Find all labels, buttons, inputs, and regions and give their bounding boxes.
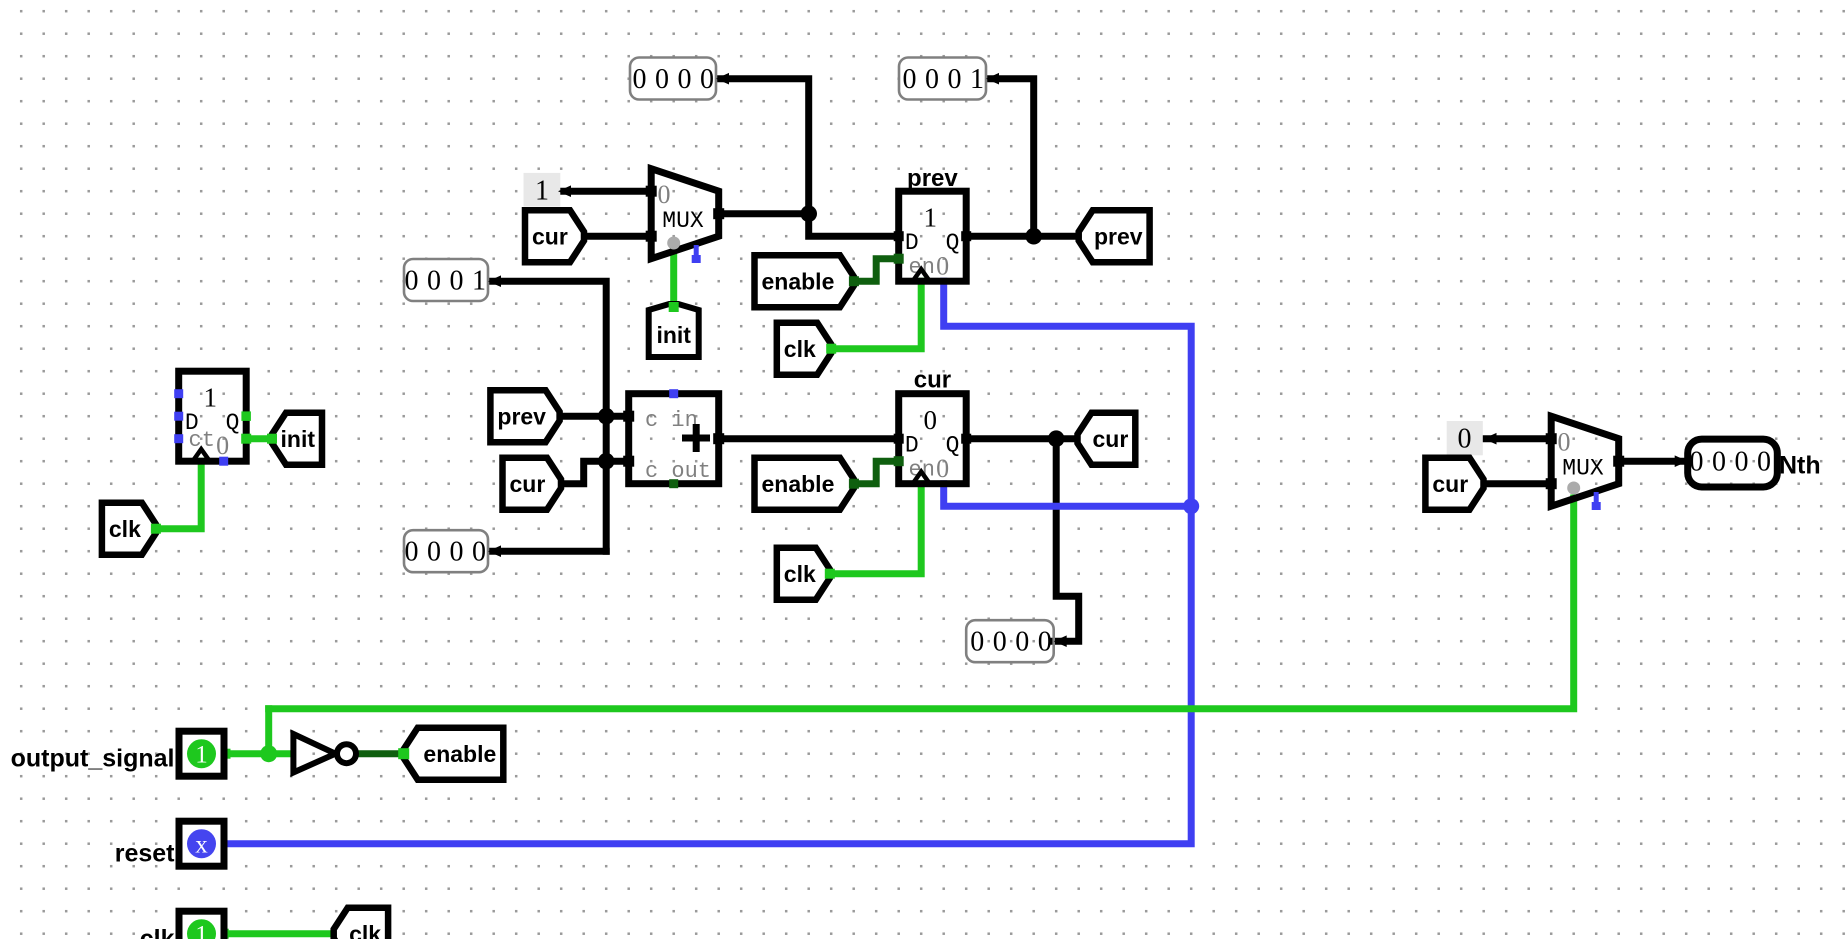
junction cur Q <box>1048 430 1065 447</box>
pin mux2 in0 <box>1546 433 1557 444</box>
svg-text:0: 0 <box>427 537 441 568</box>
wire clk tunnel to cur clock <box>830 484 921 574</box>
wire mux1 out <box>719 210 809 217</box>
pin dff out nub <box>241 434 251 444</box>
register prev (value 1) <box>899 191 967 281</box>
svg-text:init: init <box>656 322 691 348</box>
svg-text:D: D <box>905 433 919 459</box>
wire enable tunnel to prev en <box>854 259 899 282</box>
junction output_signal <box>260 745 277 762</box>
svg-text:0: 0 <box>936 252 949 281</box>
svg-text:0: 0 <box>936 454 949 483</box>
stub mux2 enable (floating) <box>1592 492 1601 510</box>
stub mux1 enable (floating) <box>692 245 701 263</box>
pin enable tunnel tip (NOT) <box>398 748 409 759</box>
constant K1 value 0000 <box>630 58 716 100</box>
junction adder input B <box>598 453 615 470</box>
tunnel init (dff output) <box>272 413 322 465</box>
svg-text:0: 0 <box>923 405 937 435</box>
tunnel enable (cur register) <box>755 458 854 510</box>
pin clk tunnel tip (cur) <box>825 569 835 579</box>
wire cur Q to tunnel <box>966 435 1078 442</box>
wire reset net from prev register <box>224 281 1191 844</box>
pin output_signal wire nub <box>221 749 231 759</box>
svg-text:0: 0 <box>1757 447 1771 478</box>
wire const1 to mux1 in0 <box>558 188 651 195</box>
pin mux1 out <box>713 208 724 219</box>
wire cur tunnel to mux2 in1 <box>1484 480 1552 487</box>
tunnel clk (dff) <box>102 503 156 555</box>
svg-text:0: 0 <box>1015 627 1029 658</box>
wire reset net from cur register <box>944 484 1191 507</box>
wire const0001a down <box>986 79 1034 237</box>
pin adder B <box>623 456 634 467</box>
pin dff Q (high) <box>241 411 251 421</box>
pin dff reset (floating) <box>219 457 228 466</box>
pin mux2 out <box>1613 456 1624 467</box>
tunnel cur (adder input) <box>503 458 562 510</box>
junction reset net <box>1183 498 1199 514</box>
tunnel cur (mux2 input) <box>1425 458 1483 510</box>
pin prev en <box>894 254 904 264</box>
svg-text:1: 1 <box>970 64 984 95</box>
svg-text:0: 0 <box>903 64 917 95</box>
svg-text:0: 0 <box>405 266 419 297</box>
pin clk tunnel tip (prev) <box>826 344 836 354</box>
flip-flop init (value 1) <box>179 371 247 461</box>
svg-text:init: init <box>281 426 316 452</box>
wire dff out to init tunnel <box>246 435 272 442</box>
svg-text:cur: cur <box>1432 471 1468 497</box>
constant K4 value 0000 <box>404 530 488 572</box>
pin enable tunnel tip (cur) <box>849 479 859 489</box>
svg-text:0: 0 <box>472 537 486 568</box>
pin init tunnel tip (mux1) <box>669 302 679 312</box>
svg-text:cur: cur <box>532 224 568 250</box>
pin adder out <box>713 433 724 444</box>
wire mux2 out to Nth pin <box>1619 458 1688 465</box>
wire adder out to cur D <box>719 435 899 442</box>
wire const0000b <box>488 548 606 555</box>
pin clk wire nub <box>219 929 229 939</box>
pin adder carry-in (floating) <box>669 389 678 398</box>
pin prev Q <box>961 231 971 241</box>
svg-text:MUX: MUX <box>1562 456 1604 482</box>
probe P1 value 0000 <box>966 620 1053 662</box>
tunnel prev (adder input) <box>490 390 559 442</box>
svg-text:0: 0 <box>970 627 984 658</box>
constant K3 value 0001 <box>404 259 488 301</box>
svg-text:reset: reset <box>115 840 175 868</box>
pin mux2 in1 <box>1546 478 1557 489</box>
pin clk tunnel tip (dff) <box>151 524 161 534</box>
tunnel cur (output) <box>1078 413 1136 465</box>
svg-text:MUX: MUX <box>662 208 704 234</box>
svg-text:clk: clk <box>349 921 381 939</box>
wire cur Q to const0000c <box>1054 439 1079 642</box>
svg-text:0: 0 <box>1735 447 1749 478</box>
svg-text:0: 0 <box>925 64 939 95</box>
svg-text:0: 0 <box>1690 447 1704 478</box>
svg-text:0: 0 <box>1558 428 1571 457</box>
svg-text:D: D <box>905 230 919 256</box>
pin cur en <box>894 456 904 466</box>
svg-text:0: 0 <box>405 537 419 568</box>
svg-text:prev: prev <box>1094 224 1143 250</box>
input pin clk (value 1) <box>179 911 224 939</box>
wire clk tunnel to prev clock <box>831 281 921 349</box>
tunnel prev (output) <box>1079 210 1150 262</box>
adder U3 <box>629 394 719 484</box>
wire mux1 select to init tunnel <box>670 251 677 304</box>
constant C1 value 1 <box>524 173 561 207</box>
pin dff D (floating) <box>174 412 183 421</box>
svg-text:1: 1 <box>923 203 937 233</box>
constant K2 value 0001 <box>899 58 986 100</box>
svg-text:enable: enable <box>762 471 835 497</box>
svg-text:enable: enable <box>423 741 496 767</box>
wire output_signal pin to NOT gate <box>226 750 292 757</box>
tunnel cur (mux1 input) <box>525 210 584 262</box>
wire prev tunnel to adder A <box>560 413 629 420</box>
svg-text:0: 0 <box>633 64 647 95</box>
wire const0001b vertical <box>488 281 606 551</box>
svg-text:clk: clk <box>140 925 175 939</box>
wire cur tunnel to mux1 in1 <box>584 233 651 240</box>
svg-text:Nth: Nth <box>1779 452 1821 480</box>
wire clk tunnel to dff clock <box>156 461 201 529</box>
multiplexer MUX2 <box>1551 416 1619 506</box>
svg-text:0: 0 <box>655 64 669 95</box>
svg-text:0: 0 <box>993 627 1007 658</box>
pin mux1 in0 <box>646 186 657 197</box>
svg-text:0: 0 <box>1038 627 1052 658</box>
svg-text:1: 1 <box>535 176 549 207</box>
input pin output_signal (value 1) <box>179 731 224 776</box>
wire NOT out to enable tunnel <box>356 750 404 757</box>
svg-text:clk: clk <box>784 561 816 587</box>
wire prev Q to tunnel <box>966 233 1078 240</box>
svg-text:1: 1 <box>195 742 208 769</box>
svg-text:x: x <box>195 832 208 859</box>
tunnel clk (bottom) <box>334 908 388 939</box>
svg-text:cur: cur <box>510 471 546 497</box>
svg-text:1: 1 <box>203 383 217 413</box>
pin init tunnel nub <box>267 434 277 444</box>
svg-text:0: 0 <box>948 64 962 95</box>
svg-text:0: 0 <box>1458 424 1472 455</box>
wire cur tunnel to adder B <box>561 461 629 484</box>
pin dff a (floating) <box>174 389 183 398</box>
output pin Nth value 0000 <box>1688 439 1778 487</box>
svg-text:cur: cur <box>1093 426 1129 452</box>
wire output_signal to mux2 select <box>269 498 1574 709</box>
tunnel init (mux1 select) <box>649 304 699 357</box>
pin adder carry-out <box>669 479 678 488</box>
svg-text:0: 0 <box>216 431 229 460</box>
constant C2 value 0 <box>1447 421 1483 455</box>
svg-text:0: 0 <box>450 266 464 297</box>
pin prev D <box>894 231 904 241</box>
wire const0 to mux2 in0 <box>1484 435 1552 442</box>
pin enable tunnel tip (prev) <box>849 276 859 286</box>
pin dff b (floating) <box>174 434 183 443</box>
tunnel enable (NOT output) <box>404 728 504 780</box>
svg-text:0: 0 <box>1712 447 1726 478</box>
svg-text:enable: enable <box>762 269 835 295</box>
svg-text:output_signal: output_signal <box>11 745 175 773</box>
svg-text:clk: clk <box>109 516 141 542</box>
pin mux1 in1 <box>646 231 657 242</box>
svg-text:cur: cur <box>914 367 951 394</box>
wire junction riser <box>265 709 272 754</box>
tunnel clk (prev register) <box>777 323 831 375</box>
svg-text:c in: c in <box>645 408 698 433</box>
svg-text:0: 0 <box>700 64 714 95</box>
pin cur Q <box>961 434 971 444</box>
svg-text:1: 1 <box>195 922 208 939</box>
multiplexer MUX1 <box>651 169 719 259</box>
wire const0000a to prev D <box>716 79 899 237</box>
input pin reset (floating) <box>179 821 224 866</box>
svg-text:0: 0 <box>427 266 441 297</box>
svg-text:0: 0 <box>658 180 671 209</box>
svg-text:0: 0 <box>678 64 692 95</box>
pin adder A <box>623 411 634 422</box>
svg-text:0: 0 <box>450 537 464 568</box>
junction adder input A <box>598 408 615 425</box>
register cur (value 0) <box>899 394 967 484</box>
tunnel clk (cur register) <box>777 548 830 600</box>
wire clk pin to clk tunnel <box>224 930 334 937</box>
pin cur D <box>894 434 904 444</box>
wire enable tunnel to cur en <box>854 461 899 484</box>
svg-text:prev: prev <box>497 404 546 430</box>
NOT gate U4 <box>293 734 356 773</box>
svg-text:clk: clk <box>784 336 816 362</box>
svg-text:prev: prev <box>907 165 958 192</box>
tunnel enable (prev register) <box>755 255 854 307</box>
svg-text:1: 1 <box>472 266 486 297</box>
junction mux1 out / const feed <box>800 205 817 222</box>
junction prev Q / const0001a <box>1025 228 1042 245</box>
